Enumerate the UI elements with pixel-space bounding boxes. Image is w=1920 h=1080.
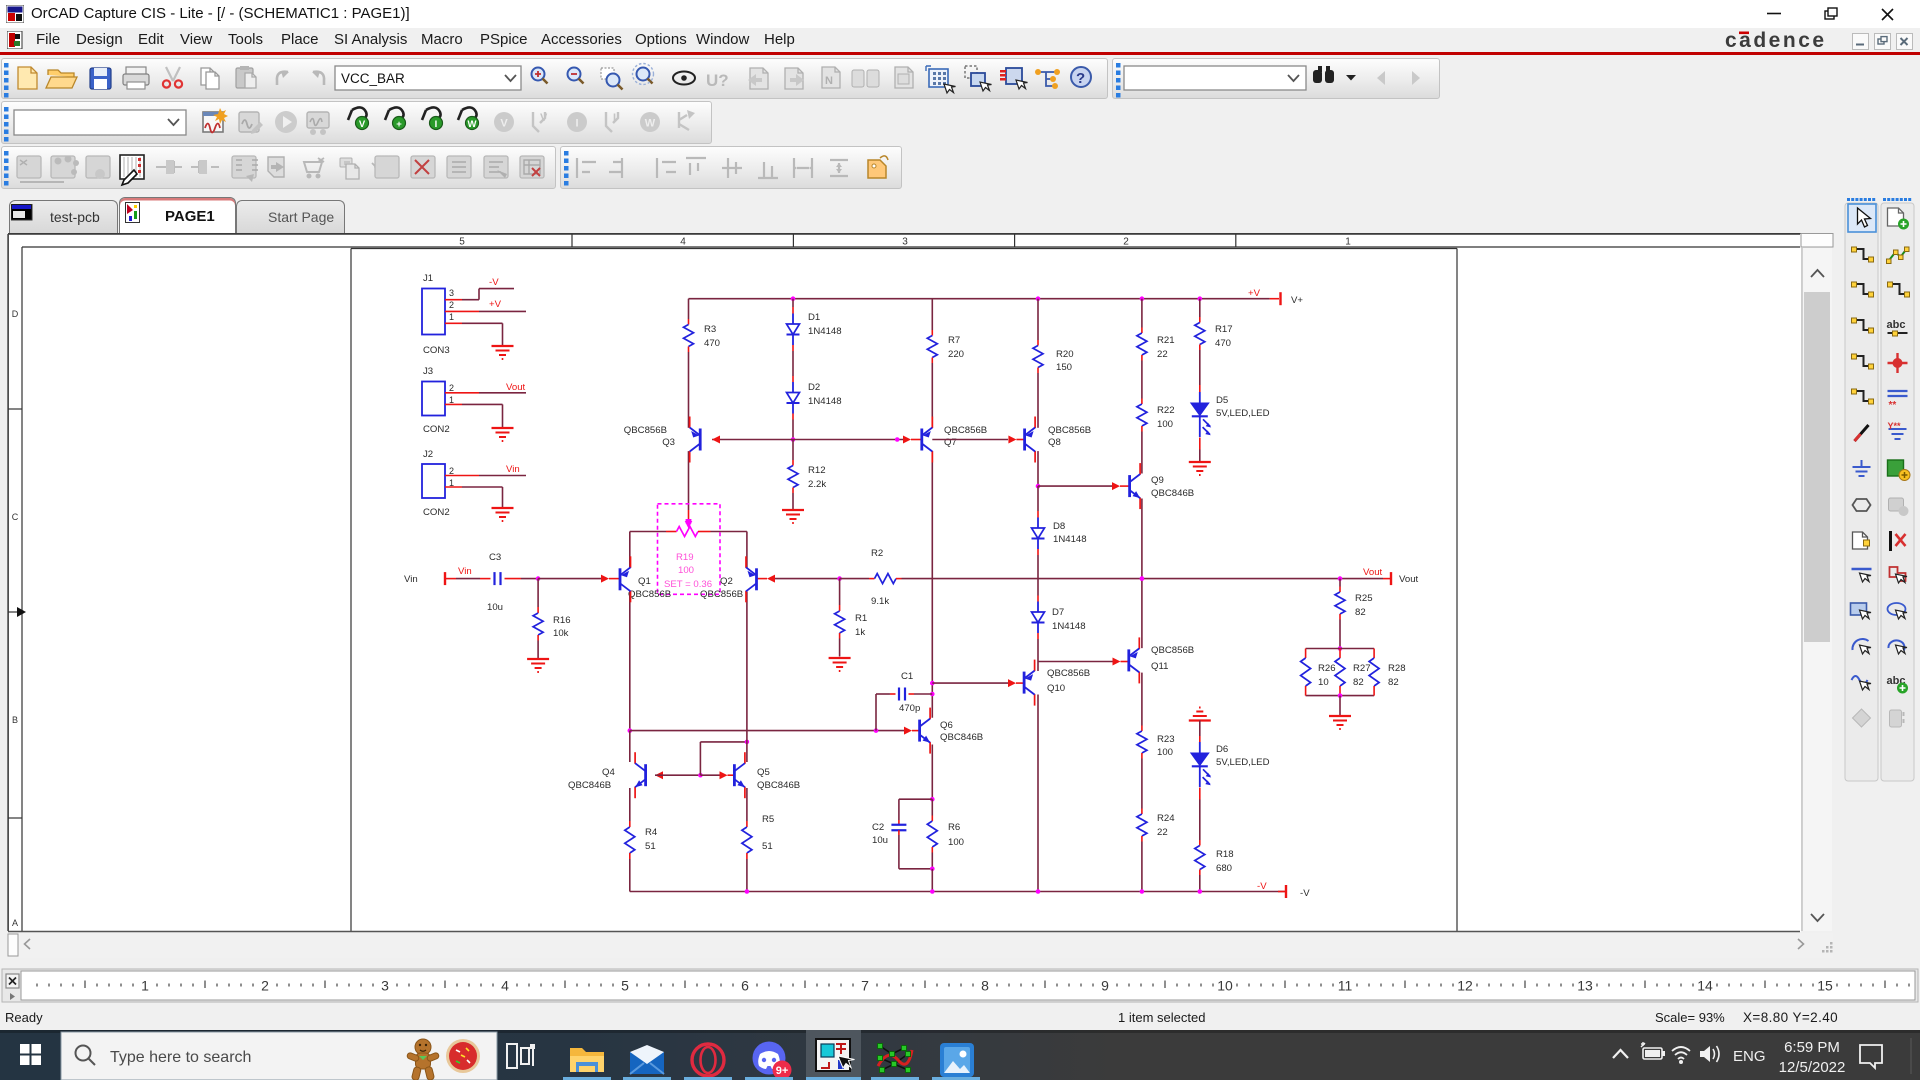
svg-text:V+: V+ [1291,295,1303,306]
svg-text:9.1k: 9.1k [871,596,889,607]
svg-text:Q9: Q9 [1151,475,1164,486]
svg-text:R25: R25 [1355,593,1373,604]
svg-text:abc: abc [1887,319,1906,331]
svg-text:J3: J3 [423,366,433,377]
svg-text:2.2k: 2.2k [808,479,826,490]
svg-text:Q2: Q2 [720,576,733,587]
svg-text:CON2: CON2 [423,507,450,518]
svg-text:C2: C2 [872,822,884,833]
svg-text:470: 470 [704,338,720,349]
svg-text:R12: R12 [808,465,826,476]
svg-text:1N4148: 1N4148 [1052,621,1086,632]
svg-text:100: 100 [1157,419,1173,430]
svg-text:QBC856B: QBC856B [1151,645,1194,656]
svg-text:R1: R1 [855,613,867,624]
svg-text:**: ** [1889,400,1897,411]
svg-text:14: 14 [1697,978,1713,994]
svg-text:R26: R26 [1318,663,1336,674]
svg-text:Y**: Y** [1888,421,1902,431]
svg-text:QBC846B: QBC846B [568,780,611,791]
svg-text:2: 2 [449,300,454,310]
svg-text:R23: R23 [1157,734,1175,745]
svg-text:7: 7 [861,978,869,994]
svg-text:R21: R21 [1157,335,1175,346]
svg-text:Q1: Q1 [638,576,651,587]
svg-text:CON2: CON2 [423,424,450,435]
svg-text:4: 4 [501,978,509,994]
svg-text:C3: C3 [489,552,501,563]
svg-text:13: 13 [1577,978,1593,994]
svg-text:QBC856B: QBC856B [628,589,671,600]
svg-text:3: 3 [381,978,389,994]
svg-text:15: 15 [1817,978,1833,994]
svg-text:Q3: Q3 [662,437,675,448]
svg-text:QBC856B: QBC856B [1048,425,1091,436]
svg-text:R19: R19 [676,552,694,563]
svg-text:150: 150 [1056,362,1072,373]
svg-text:2: 2 [1123,237,1129,248]
svg-text:3: 3 [449,288,454,298]
svg-text:J1: J1 [423,273,433,284]
svg-text:QBC856B: QBC856B [700,589,743,600]
svg-text:1: 1 [141,978,149,994]
svg-text:Q5: Q5 [757,767,770,778]
svg-text:6: 6 [741,978,749,994]
svg-text:2: 2 [261,978,269,994]
svg-text:5: 5 [621,978,629,994]
svg-text:82: 82 [1355,607,1366,618]
svg-text:10: 10 [1318,677,1329,688]
svg-text:2: 2 [449,383,454,393]
svg-text:R27: R27 [1353,663,1371,674]
svg-text:C: C [12,512,19,522]
svg-text:470p: 470p [899,703,920,714]
svg-text:R17: R17 [1215,324,1233,335]
svg-text:R20: R20 [1056,349,1074,360]
svg-text:5: 5 [459,237,465,248]
svg-text:D5: D5 [1216,395,1228,406]
svg-text:8: 8 [981,978,989,994]
svg-text:Type here to search: Type here to search [110,1049,251,1066]
svg-text:R4: R4 [645,827,658,838]
svg-text:Vout: Vout [1363,567,1383,578]
svg-text:10k: 10k [553,628,569,639]
svg-text:R28: R28 [1388,663,1406,674]
svg-text:Q11: Q11 [1151,661,1168,672]
svg-text:-V: -V [489,277,499,288]
svg-text:QBC846B: QBC846B [940,732,983,743]
svg-text:51: 51 [762,841,773,852]
svg-text:12/5/2022: 12/5/2022 [1779,1059,1846,1076]
svg-text:9: 9 [1101,978,1109,994]
svg-text:Vin: Vin [404,574,418,585]
svg-text:-V: -V [1300,888,1310,899]
svg-text:82: 82 [1388,677,1399,688]
svg-text:6:59 PM: 6:59 PM [1784,1039,1840,1056]
svg-text:QBC846B: QBC846B [757,780,800,791]
svg-text:R22: R22 [1157,405,1175,416]
svg-text:+V: +V [489,299,502,310]
svg-text:ENG: ENG [1733,1048,1766,1065]
svg-text:12: 12 [1457,978,1473,994]
svg-text:Q10: Q10 [1047,683,1065,694]
svg-text:R3: R3 [704,324,716,335]
svg-text:R6: R6 [948,822,960,833]
svg-text:QBC856B: QBC856B [1047,668,1090,679]
svg-text:220: 220 [948,349,964,360]
svg-text:Vout: Vout [506,382,526,393]
svg-text:C1: C1 [901,671,913,682]
svg-text:-V: -V [1257,881,1267,892]
svg-text:D: D [12,309,19,319]
svg-text:470: 470 [1215,338,1231,349]
svg-text:R7: R7 [948,335,960,346]
svg-text:Vin: Vin [506,464,520,475]
svg-text:4: 4 [680,237,686,248]
svg-text:QBC846B: QBC846B [1151,488,1194,499]
svg-text:D6: D6 [1216,744,1228,755]
svg-text:3: 3 [902,237,908,248]
svg-text:A: A [12,918,18,928]
svg-text:R5: R5 [762,814,774,825]
svg-text:Q8: Q8 [1048,437,1061,448]
svg-text:9+: 9+ [776,1065,789,1077]
svg-text:R18: R18 [1216,849,1234,860]
svg-text:D8: D8 [1053,521,1065,532]
svg-text:Vin: Vin [458,566,472,577]
svg-text:Vout: Vout [1399,574,1419,585]
svg-text:680: 680 [1216,863,1232,874]
svg-text:22: 22 [1157,827,1168,838]
svg-text:10u: 10u [872,835,888,846]
svg-text:D1: D1 [808,312,820,323]
svg-text:R2: R2 [871,548,883,559]
svg-text:82: 82 [1353,677,1364,688]
svg-text:1: 1 [449,395,454,405]
svg-text:10u: 10u [487,602,503,613]
svg-text:1: 1 [1345,237,1351,248]
svg-text:10: 10 [1217,978,1233,994]
svg-text:QBC856B: QBC856B [624,425,667,436]
svg-text:Q6: Q6 [940,720,953,731]
svg-text:1N4148: 1N4148 [808,326,842,337]
svg-text:R16: R16 [553,615,571,626]
svg-text:D7: D7 [1052,607,1064,618]
svg-text:11: 11 [1338,978,1353,994]
svg-text:Q7: Q7 [944,437,957,448]
svg-text:Q4: Q4 [602,767,615,778]
svg-text:1N4148: 1N4148 [1053,534,1087,545]
svg-text:1: 1 [449,312,454,322]
svg-text:R24: R24 [1157,813,1175,824]
svg-text:51: 51 [645,841,656,852]
svg-text:5V,LED,LED: 5V,LED,LED [1216,757,1270,768]
svg-text:1k: 1k [855,627,865,638]
svg-text:100: 100 [948,837,964,848]
svg-text:J2: J2 [423,449,433,460]
svg-text:QBC856B: QBC856B [944,425,987,436]
svg-text:100: 100 [1157,747,1173,758]
svg-text:CON3: CON3 [423,345,450,356]
svg-text:5V,LED,LED: 5V,LED,LED [1216,408,1270,419]
svg-text:+V: +V [1248,288,1261,299]
svg-text:B: B [12,715,18,725]
svg-text:1N4148: 1N4148 [808,396,842,407]
svg-text:D2: D2 [808,382,820,393]
svg-text:100: 100 [678,565,694,576]
svg-text:2: 2 [449,466,454,476]
svg-text:22: 22 [1157,349,1168,360]
